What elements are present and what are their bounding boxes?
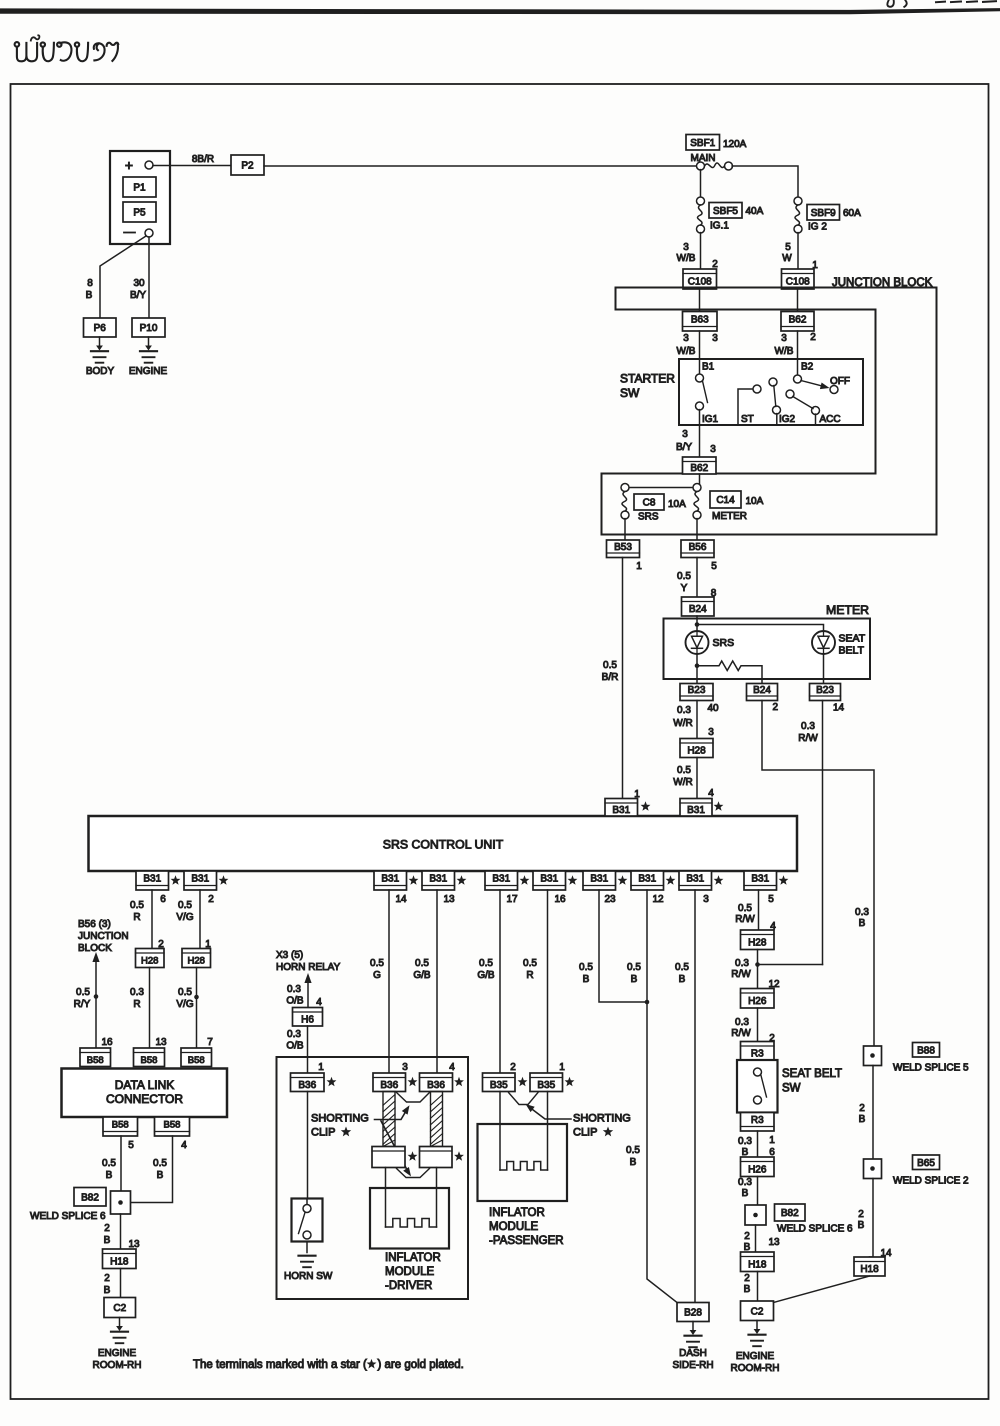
wire battery- to P10 xyxy=(148,237,150,318)
data link connector box xyxy=(62,1069,228,1118)
svg-text:C108: C108 xyxy=(688,277,712,288)
star B31-17 xyxy=(520,875,530,884)
wire battery+ to P2 xyxy=(153,165,231,167)
svg-text:1: 1 xyxy=(634,789,640,800)
shorting clip bridge passenger xyxy=(509,1093,539,1105)
svg-text:IG1: IG1 xyxy=(702,414,719,425)
P1 connector xyxy=(123,177,156,197)
wire C108 to B62 xyxy=(797,289,799,312)
svg-text:HORN SW: HORN SW xyxy=(284,1271,333,1282)
svg-text:B31: B31 xyxy=(429,874,447,885)
svg-text:4: 4 xyxy=(708,788,714,799)
fuse C8 label box xyxy=(634,494,664,510)
svg-text:B31: B31 xyxy=(590,874,608,885)
svg-text:0.5: 0.5 xyxy=(675,962,689,973)
svg-text:ROOM-RH: ROOM-RH xyxy=(731,1363,780,1374)
wire B23-14 down xyxy=(822,701,824,965)
wire B35-1 into module xyxy=(547,1092,549,1171)
svg-text:IG2: IG2 xyxy=(779,414,796,425)
connector H18 right xyxy=(854,1257,885,1276)
svg-text:B58: B58 xyxy=(112,1120,129,1131)
starter OFF contact xyxy=(830,386,838,394)
wire seat belt lamp down xyxy=(823,654,825,684)
svg-text:13: 13 xyxy=(768,1237,780,1248)
svg-text:R/W: R/W xyxy=(731,1028,751,1039)
fuse SBF9 xyxy=(794,197,802,205)
svg-text:W/B: W/B xyxy=(775,346,794,357)
spiral cable left xyxy=(383,1092,395,1147)
wire B62 to starter B2 xyxy=(797,331,799,359)
connector H28 left xyxy=(136,949,165,968)
svg-text:H28: H28 xyxy=(188,956,205,967)
svg-text:WELD SPLICE 6: WELD SPLICE 6 xyxy=(777,1224,853,1235)
svg-text:0.5: 0.5 xyxy=(178,900,192,911)
partial thai glyphs above bar xyxy=(887,1,906,7)
svg-text:B31: B31 xyxy=(686,874,704,885)
junction dot R/W xyxy=(755,962,760,967)
svg-text:B82: B82 xyxy=(81,1192,99,1203)
svg-text:H6: H6 xyxy=(301,1014,314,1025)
shorting clip bridge driver upper xyxy=(397,1093,430,1103)
spiral cable right xyxy=(431,1092,443,1147)
svg-text:B31: B31 xyxy=(687,805,705,816)
junction dot R/Y xyxy=(94,994,99,999)
svg-text:B31: B31 xyxy=(638,874,656,885)
star B36-3 xyxy=(408,1077,418,1086)
svg-text:4: 4 xyxy=(181,1140,187,1151)
svg-text:B31: B31 xyxy=(381,874,399,885)
page header black bar xyxy=(0,8,1000,14)
svg-text:SW: SW xyxy=(620,386,640,400)
svg-text:B: B xyxy=(630,1157,637,1168)
connector B35 pin1 xyxy=(530,1073,563,1092)
svg-text:DASH: DASH xyxy=(679,1348,707,1359)
connector B36 pin3 xyxy=(373,1073,406,1092)
wire B23-40 to H28 xyxy=(696,701,698,739)
svg-text:0.3: 0.3 xyxy=(130,987,144,998)
wire B31-14 to B36-3 xyxy=(388,890,390,1073)
starter switch box xyxy=(679,359,863,425)
label box B88 xyxy=(913,1043,940,1058)
svg-text:0.5: 0.5 xyxy=(677,571,691,582)
connector B36 pin1 xyxy=(291,1073,325,1092)
connector B58 pin4 xyxy=(155,1117,190,1136)
svg-text:B: B xyxy=(86,290,93,301)
fusible link SBF1 xyxy=(697,162,705,170)
wire B31-17 to B35-2 xyxy=(499,890,501,1073)
connector P10 xyxy=(132,318,165,337)
svg-text:4: 4 xyxy=(449,1062,455,1073)
svg-text:0.3: 0.3 xyxy=(677,705,691,716)
connector B56 xyxy=(681,540,714,558)
svg-text:WELD SPLICE 2: WELD SPLICE 2 xyxy=(893,1176,969,1187)
svg-text:7: 7 xyxy=(207,1037,213,1048)
weld splice 2 box xyxy=(864,1159,882,1179)
svg-text:B24: B24 xyxy=(753,685,771,696)
star B31-14 xyxy=(409,875,419,884)
svg-text:JUNCTION: JUNCTION xyxy=(78,931,129,942)
driver squib symbol xyxy=(386,1219,437,1228)
connector B58 pin13 xyxy=(134,1048,165,1067)
connector R3 lower xyxy=(741,1113,775,1132)
junction block outline xyxy=(602,288,937,535)
svg-text:O/B: O/B xyxy=(286,996,304,1007)
svg-text:C108: C108 xyxy=(786,277,810,288)
svg-text:8B/R: 8B/R xyxy=(192,154,214,165)
wire B62 into fuse box xyxy=(699,474,701,488)
connector B31 pin13 xyxy=(422,871,455,890)
wire B24-2 right turn down xyxy=(762,701,874,1047)
svg-text:2: 2 xyxy=(858,1209,864,1220)
svg-text:H18: H18 xyxy=(860,1264,879,1275)
connector B36 pin4 xyxy=(420,1073,453,1092)
svg-text:B: B xyxy=(104,1235,111,1246)
connector B23 pin14 xyxy=(810,684,841,701)
star B35-2 xyxy=(518,1077,528,1086)
wire H28 to B58-13 xyxy=(149,968,151,1049)
fuse SBF9 label box xyxy=(807,205,840,221)
svg-text:P10: P10 xyxy=(140,323,158,334)
weld splice 5 box xyxy=(864,1046,882,1066)
connector H28 pin3 xyxy=(680,739,713,758)
wire B31-2 to H28 xyxy=(199,890,201,949)
svg-text:0.5: 0.5 xyxy=(153,1158,167,1169)
svg-text:H26: H26 xyxy=(748,996,767,1007)
svg-text:BODY: BODY xyxy=(86,366,115,377)
svg-text:B1: B1 xyxy=(702,362,715,373)
svg-text:ACC: ACC xyxy=(820,414,841,425)
junction dot V/G xyxy=(194,995,199,1000)
star B31-3 xyxy=(714,875,724,884)
svg-text:0.5: 0.5 xyxy=(627,962,641,973)
svg-text:ENGINE: ENGINE xyxy=(98,1348,137,1359)
svg-text:C14: C14 xyxy=(716,495,735,506)
svg-text:JUNCTION BLOCK: JUNCTION BLOCK xyxy=(832,277,933,289)
starter contact IG2 xyxy=(769,378,777,386)
star squib right xyxy=(454,1151,464,1160)
wire C14 to B56 xyxy=(696,519,698,540)
svg-text:16: 16 xyxy=(101,1037,113,1048)
svg-text:30: 30 xyxy=(133,278,145,289)
svg-text:-DRIVER: -DRIVER xyxy=(385,1280,432,1292)
svg-text:WELD SPLICE 6: WELD SPLICE 6 xyxy=(30,1211,106,1222)
svg-text:B82: B82 xyxy=(781,1208,799,1219)
svg-text:SEAT: SEAT xyxy=(839,633,866,645)
svg-text:3: 3 xyxy=(683,333,689,344)
star B31-5 xyxy=(779,875,789,884)
svg-text:R: R xyxy=(133,999,140,1010)
wire SBF1 to SBF5 xyxy=(700,170,702,198)
svg-text:SRS CONTROL UNIT: SRS CONTROL UNIT xyxy=(383,838,504,852)
svg-text:5: 5 xyxy=(711,561,717,572)
svg-text:HORN RELAY: HORN RELAY xyxy=(276,962,341,973)
battery - terminal xyxy=(145,229,153,237)
connector B35 pin2 xyxy=(483,1073,516,1092)
svg-text:13: 13 xyxy=(443,894,455,905)
svg-text:1: 1 xyxy=(318,1062,324,1073)
svg-text:5: 5 xyxy=(785,242,791,253)
svg-text:SBF5: SBF5 xyxy=(713,206,738,217)
wire H28 to B31-4 xyxy=(696,758,698,799)
connector R3 upper xyxy=(741,1042,775,1061)
connector C108 right xyxy=(782,269,815,289)
fuse C14 label box xyxy=(710,491,741,508)
svg-text:5: 5 xyxy=(768,894,774,905)
connector H18 left xyxy=(103,1249,137,1269)
svg-text:0.3: 0.3 xyxy=(287,984,301,995)
svg-text:0.5: 0.5 xyxy=(76,987,90,998)
svg-text:P2: P2 xyxy=(241,161,254,172)
svg-text:17: 17 xyxy=(506,894,518,905)
svg-text:H18: H18 xyxy=(748,1259,767,1270)
svg-text:0.5: 0.5 xyxy=(579,962,593,973)
svg-text:B31: B31 xyxy=(540,874,558,885)
svg-text:B: B xyxy=(157,1170,164,1181)
star B31-1 xyxy=(641,801,651,810)
svg-text:BLOCK: BLOCK xyxy=(78,943,112,954)
wire H26 to weld splice xyxy=(757,1177,759,1206)
svg-text:3: 3 xyxy=(712,333,718,344)
svg-text:H28: H28 xyxy=(687,746,706,757)
svg-text:SW: SW xyxy=(782,1083,801,1095)
horn switch box xyxy=(292,1199,323,1242)
starter contact ACC xyxy=(786,390,794,398)
wire H28 to B58-7 xyxy=(196,968,198,1049)
wire squib right down xyxy=(436,1168,438,1228)
svg-text:B56: B56 xyxy=(689,542,707,553)
connector B63 xyxy=(683,312,718,332)
svg-text:0.5: 0.5 xyxy=(370,958,384,969)
svg-text:ST: ST xyxy=(741,414,754,425)
wire C108 to B63 xyxy=(699,289,701,312)
wire B31-5 to H28 xyxy=(758,890,760,930)
svg-text:B53: B53 xyxy=(614,542,632,553)
connector B23 pin40 xyxy=(680,684,713,701)
svg-text:ROOM-RH: ROOM-RH xyxy=(93,1360,142,1371)
P5 connector xyxy=(123,202,156,222)
svg-text:V/G: V/G xyxy=(176,999,193,1010)
wire H28 to H26 xyxy=(757,950,759,989)
weld splice 6 box xyxy=(111,1191,131,1214)
svg-text:V/G: V/G xyxy=(176,912,193,923)
svg-text:B35: B35 xyxy=(537,1080,555,1091)
meter box xyxy=(664,619,871,680)
connector C2 left xyxy=(104,1298,136,1318)
OFF arrow xyxy=(801,381,826,388)
star B36-4 xyxy=(454,1077,464,1086)
inflator module driver box xyxy=(370,1188,449,1249)
arrow to horn relay xyxy=(307,979,309,1008)
connector B31 pin6 xyxy=(136,871,169,890)
connector driver squib right xyxy=(420,1147,453,1168)
connector H28 seatbelt xyxy=(741,930,775,950)
svg-text:10A: 10A xyxy=(668,499,686,510)
svg-text:B58: B58 xyxy=(141,1055,158,1066)
connector C108 left xyxy=(683,269,717,289)
star B31-23 xyxy=(618,875,628,884)
svg-text:B/R: B/R xyxy=(602,672,619,683)
svg-text:METER: METER xyxy=(826,603,869,617)
svg-text:B58: B58 xyxy=(188,1055,205,1066)
svg-text:2: 2 xyxy=(859,1103,865,1114)
svg-text:) are gold plated.: ) are gold plated. xyxy=(378,1359,464,1371)
seat belt switch box xyxy=(737,1060,778,1113)
wire B31-13 to B36-4 xyxy=(436,890,438,1073)
star squib left xyxy=(408,1151,418,1160)
svg-text:120A: 120A xyxy=(723,139,747,150)
svg-text:R/W: R/W xyxy=(735,914,755,925)
connector P6 xyxy=(84,318,117,337)
wire B36-1 to horn switch xyxy=(307,1092,309,1199)
svg-text:0.5: 0.5 xyxy=(415,958,429,969)
svg-text:3: 3 xyxy=(683,242,689,253)
svg-text:W/R: W/R xyxy=(673,718,692,729)
svg-text:SHORTING: SHORTING xyxy=(573,1113,631,1125)
svg-text:1: 1 xyxy=(769,1135,775,1146)
connector B31 pin16 xyxy=(533,871,566,890)
svg-text:16: 16 xyxy=(554,894,566,905)
svg-text:B31: B31 xyxy=(492,874,510,885)
svg-text:MODULE: MODULE xyxy=(489,1221,539,1233)
star B31-4 xyxy=(714,801,724,810)
wire SBF1 to IG2 branch xyxy=(732,166,798,197)
star B31-6 xyxy=(171,875,181,884)
wire H18-14 diagonal to C2 xyxy=(774,1276,870,1303)
svg-text:B: B xyxy=(106,1170,113,1181)
connector P2 xyxy=(231,155,264,175)
wire P2 to SBF1 xyxy=(264,165,697,167)
connector B31 pin23 xyxy=(583,871,616,890)
svg-text:0.5: 0.5 xyxy=(479,958,493,969)
connector B58 pin16 xyxy=(80,1048,111,1067)
svg-text:40A: 40A xyxy=(746,206,764,217)
svg-text:C2: C2 xyxy=(751,1306,764,1317)
connector H28 right xyxy=(182,949,211,968)
svg-text:B31: B31 xyxy=(143,874,161,885)
svg-text:0.3: 0.3 xyxy=(738,1136,752,1147)
connector B31 pin4 xyxy=(680,799,712,817)
wire B58-5 to weld splice xyxy=(120,1136,122,1191)
weld splice 6 box right xyxy=(745,1205,766,1225)
svg-text:2: 2 xyxy=(104,1273,110,1284)
shorting clip bridge driver lower xyxy=(397,1169,430,1178)
ground engine room left xyxy=(119,1318,121,1329)
starter contact B2 xyxy=(797,359,799,375)
connector B24 pin2 xyxy=(747,684,778,701)
svg-text:B62: B62 xyxy=(789,314,807,325)
connector B31 pin3 xyxy=(679,871,712,890)
svg-text:2: 2 xyxy=(208,894,214,905)
svg-text:6: 6 xyxy=(160,894,166,905)
ground engine room right xyxy=(756,1321,758,1332)
svg-text:P1: P1 xyxy=(133,183,146,194)
svg-text:2: 2 xyxy=(510,1062,516,1073)
star B36-1 xyxy=(327,1077,337,1086)
svg-text:W: W xyxy=(782,253,792,264)
arrow shorting clip upper xyxy=(375,1109,408,1120)
svg-text:The terminals marked with a st: The terminals marked with a star ( xyxy=(193,1359,367,1371)
wire IG1 to B62 xyxy=(699,425,701,457)
svg-text:B36: B36 xyxy=(298,1080,316,1091)
connector C2 right xyxy=(741,1301,774,1321)
svg-text:R: R xyxy=(526,970,533,981)
meter resistor xyxy=(697,661,762,684)
wire SRS lamp down xyxy=(696,654,698,684)
connector B28 xyxy=(677,1303,709,1322)
wire B31-23 down xyxy=(599,890,647,1002)
minus sign xyxy=(124,232,135,234)
svg-text:METER: METER xyxy=(712,511,747,522)
svg-text:0.5: 0.5 xyxy=(738,903,752,914)
ground horn switch xyxy=(306,1242,308,1253)
svg-text:B: B xyxy=(583,974,590,985)
svg-text:B: B xyxy=(679,974,686,985)
svg-text:H18: H18 xyxy=(110,1256,129,1267)
battery P box xyxy=(110,151,170,244)
SEAT BELT warning lamp xyxy=(812,631,835,654)
star B31-12 xyxy=(666,875,676,884)
svg-text:ENGINE: ENGINE xyxy=(129,366,168,377)
wire SBF9 to C108 xyxy=(797,233,799,269)
fuse C14 xyxy=(693,484,701,492)
arrow to junction block xyxy=(95,958,97,1048)
svg-text:SEAT BELT: SEAT BELT xyxy=(782,1068,842,1080)
connector B31 pin17 xyxy=(485,871,518,890)
svg-text:IG 2: IG 2 xyxy=(808,222,827,233)
svg-text:3: 3 xyxy=(710,444,716,455)
wire B31-6 to H28 xyxy=(151,890,153,949)
connector H26 upper xyxy=(741,989,775,1009)
wire R3 to H26 xyxy=(757,1131,759,1157)
svg-text:H28: H28 xyxy=(748,937,767,948)
svg-text:B62: B62 xyxy=(690,463,708,474)
svg-text:H26: H26 xyxy=(748,1164,767,1175)
wire squib left down xyxy=(385,1168,387,1228)
svg-text:ENGINE: ENGINE xyxy=(736,1351,775,1362)
svg-text:2: 2 xyxy=(744,1273,750,1284)
svg-text:G/B: G/B xyxy=(413,970,431,981)
svg-text:Y: Y xyxy=(681,583,688,594)
connector B62 lower xyxy=(683,457,717,474)
svg-text:W/B: W/B xyxy=(677,253,696,264)
svg-text:P5: P5 xyxy=(133,208,146,219)
ground at P6 xyxy=(99,337,101,348)
svg-text:B23: B23 xyxy=(688,685,706,696)
svg-text:O/B: O/B xyxy=(286,1041,304,1052)
svg-text:B: B xyxy=(859,1114,866,1125)
svg-text:R/W: R/W xyxy=(798,733,818,744)
connector B58 pin7 xyxy=(181,1048,212,1067)
star B31-13 xyxy=(457,875,467,884)
wire H6 to B36-1 xyxy=(307,1026,309,1073)
svg-text:R3: R3 xyxy=(751,1115,764,1126)
seat belt switch contacts xyxy=(754,1068,762,1076)
svg-text:CLIP: CLIP xyxy=(573,1127,597,1139)
svg-text:+: + xyxy=(125,157,133,173)
svg-text:1: 1 xyxy=(636,561,642,572)
svg-text:B65: B65 xyxy=(917,1158,935,1169)
connector B31 pin5 xyxy=(744,871,777,890)
svg-text:2: 2 xyxy=(104,1223,110,1234)
label box B82 right xyxy=(775,1204,806,1221)
svg-text:B: B xyxy=(104,1285,111,1296)
svg-text:10A: 10A xyxy=(746,496,764,507)
wire B35-2 into module xyxy=(499,1092,501,1171)
svg-text:B: B xyxy=(744,1284,751,1295)
label box B82 xyxy=(74,1188,106,1207)
svg-text:0.3: 0.3 xyxy=(738,1177,752,1188)
svg-text:B28: B28 xyxy=(684,1308,702,1319)
